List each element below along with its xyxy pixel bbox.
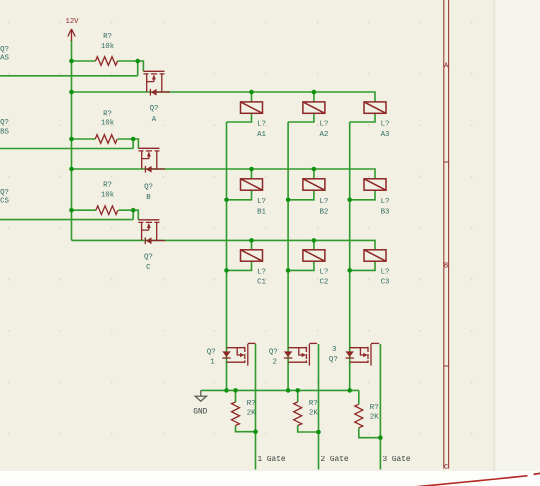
svg-text:L?: L?	[257, 268, 266, 276]
svg-text:Q?: Q?	[0, 119, 9, 127]
svg-text:3 Gate: 3 Gate	[383, 456, 411, 464]
svg-text:Q?: Q?	[207, 348, 216, 356]
svg-text:2K: 2K	[370, 414, 379, 422]
svg-text:R?: R?	[370, 404, 379, 412]
svg-text:L?: L?	[257, 121, 266, 129]
svg-text:2: 2	[272, 359, 276, 367]
svg-text:Q?: Q?	[150, 105, 159, 113]
svg-text:2 Gate: 2 Gate	[321, 456, 349, 464]
svg-text:3: 3	[332, 346, 336, 354]
svg-text:Q?: Q?	[144, 183, 153, 191]
svg-text:2K: 2K	[309, 410, 318, 418]
svg-text:Q?: Q?	[269, 348, 278, 356]
svg-text:R?: R?	[309, 400, 318, 408]
svg-text:R?: R?	[103, 33, 112, 41]
svg-text:B3: B3	[381, 209, 390, 217]
svg-text:GND: GND	[193, 409, 207, 417]
svg-text:2K: 2K	[247, 410, 256, 418]
svg-text:C3: C3	[381, 279, 390, 287]
svg-text:C2: C2	[320, 279, 329, 287]
svg-text:Q?: Q?	[144, 254, 153, 262]
svg-text:Q?: Q?	[329, 356, 338, 364]
svg-text:Q?: Q?	[0, 46, 9, 54]
svg-text:L?: L?	[320, 121, 329, 129]
svg-text:B: B	[444, 263, 449, 271]
svg-text:CS: CS	[0, 198, 9, 206]
svg-text:10k: 10k	[101, 120, 115, 128]
svg-text:A1: A1	[257, 131, 266, 139]
svg-text:12V: 12V	[66, 18, 80, 26]
svg-text:R?: R?	[103, 181, 112, 189]
svg-text:C1: C1	[257, 279, 266, 287]
svg-text:C: C	[146, 264, 151, 272]
svg-text:10k: 10k	[101, 191, 115, 199]
svg-text:L?: L?	[381, 198, 390, 206]
svg-text:10k: 10k	[101, 43, 115, 51]
svg-text:L?: L?	[320, 198, 329, 206]
svg-text:A2: A2	[320, 131, 329, 139]
svg-text:A: A	[444, 63, 449, 71]
svg-text:L?: L?	[320, 268, 329, 276]
svg-text:C: C	[444, 464, 449, 472]
svg-text:L?: L?	[257, 198, 266, 206]
svg-text:A: A	[152, 116, 157, 124]
svg-text:1 Gate: 1 Gate	[258, 456, 286, 464]
svg-text:BS: BS	[0, 129, 9, 137]
svg-text:R?: R?	[247, 400, 256, 408]
svg-text:AS: AS	[0, 54, 9, 62]
svg-text:B: B	[146, 194, 151, 202]
svg-text:R?: R?	[103, 110, 112, 118]
svg-text:B2: B2	[320, 209, 329, 217]
svg-text:L?: L?	[381, 268, 390, 276]
svg-text:A3: A3	[381, 131, 390, 139]
svg-text:L?: L?	[381, 121, 390, 129]
svg-text:B1: B1	[257, 209, 266, 217]
svg-text:Q?: Q?	[0, 189, 9, 197]
svg-text:1: 1	[210, 359, 215, 367]
